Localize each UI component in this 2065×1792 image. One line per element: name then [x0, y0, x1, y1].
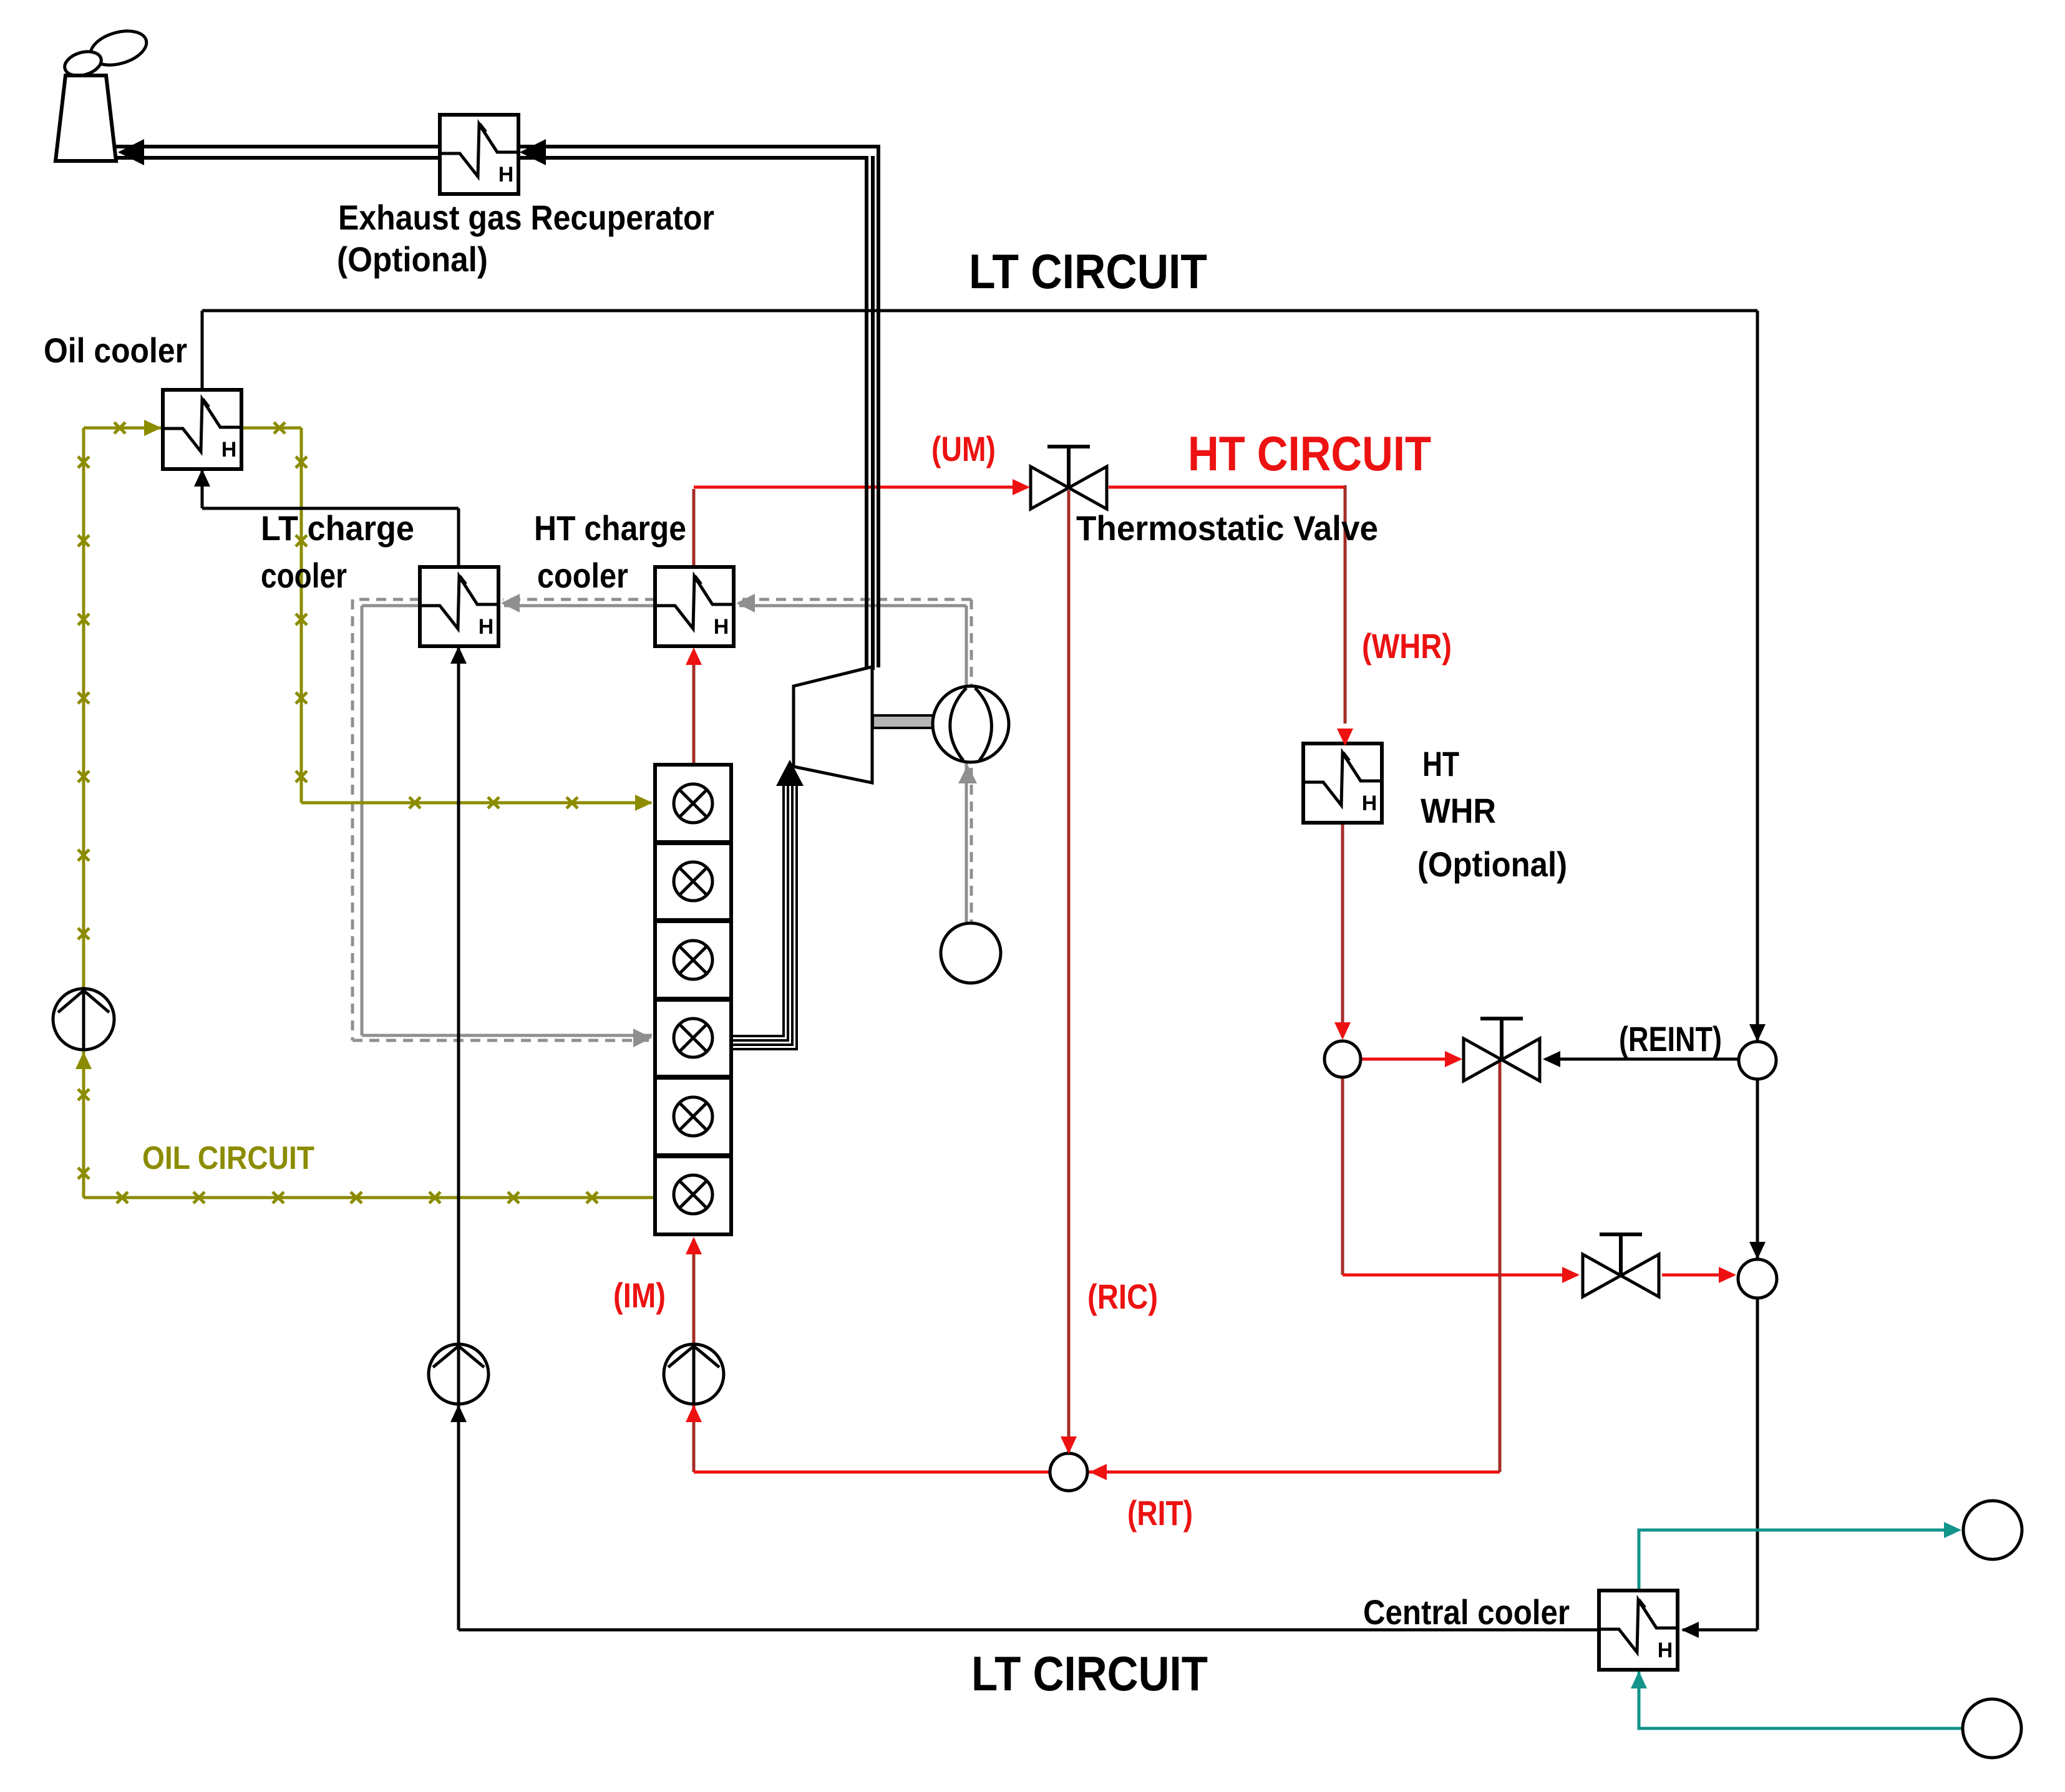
arrow red down into RIT node [1061, 1436, 1077, 1454]
wire oil circuit right vertical [300, 428, 303, 803]
wire gray dashed air line left of LT charge cooler [352, 598, 420, 601]
wire exhaust duct vertical line 2 [871, 156, 875, 670]
HT circuit pump [664, 1344, 724, 1404]
arrow gray air left into LT charge cooler [501, 594, 520, 613]
svg-text:(UM): (UM) [931, 429, 996, 468]
wire dark red (RIC) vertical from thermostatic valve to RIT node [1067, 490, 1071, 1453]
oil line x-marks [78, 422, 598, 1203]
svg-text:H: H [498, 163, 514, 186]
LT circuit pump [429, 1344, 488, 1404]
thermostatic valve [1031, 447, 1107, 509]
wire dark red vertical HT WHR exchanger to mixing node [1341, 821, 1344, 1037]
arrow REINT left into valve V2 [1543, 1051, 1560, 1067]
node B (bypass junction) [1738, 1259, 1777, 1298]
wire LT right border node A to node B [1756, 1079, 1759, 1260]
heat exchanger: Central cooler [1599, 1591, 1678, 1670]
wire gray dashed air line into engine intake [352, 1039, 652, 1042]
wire gray solid air line into engine intake [362, 1034, 652, 1037]
wire oil supply into engine cylinder 1 [301, 802, 651, 805]
arrow red right into valve V2 [1445, 1051, 1462, 1067]
wire engine exhaust manifold line 2 [731, 781, 788, 1040]
wire gray solid air line upper run (fan to HT charge cooler) [739, 604, 966, 608]
heat exchanger: HT WHR (Optional) [1303, 743, 1382, 823]
valve V3 (bypass valve) [1583, 1234, 1659, 1297]
svg-text:Central cooler: Central cooler [1363, 1592, 1570, 1632]
wire red bypass horizontal to valve V3 [1343, 1274, 1577, 1277]
arrow gray air right into engine cylinder 4 [633, 1029, 652, 1047]
svg-text:Exhaust gas Recuperator: Exhaust gas Recuperator [338, 198, 714, 237]
arrow teal right into outlet circle [1944, 1522, 1961, 1538]
node teal inlet circle [1963, 1699, 2021, 1758]
arrow red up into engine bottom [686, 1237, 702, 1254]
heat exchanger: HT charge cooler [655, 567, 734, 646]
wire LT circuit bottom border [459, 1629, 1599, 1632]
wire exhaust duct chimney to recuperator lower line [114, 156, 440, 160]
wire LT line down into LT charge cooler top [457, 508, 460, 568]
arrow exhaust into chimney [118, 139, 144, 165]
cylinder 6 symbol [674, 1175, 712, 1214]
arrow red up into HT pump [686, 1405, 702, 1422]
svg-text:H: H [1362, 792, 1377, 815]
wire LT line oil cooler bottom to corner [201, 468, 204, 508]
engine block (6 cylinders) [655, 765, 731, 1234]
arrow exhaust into recuperator [520, 139, 546, 165]
wire red line valve V3 to node B [1662, 1274, 1734, 1277]
svg-text:LT CIRCUIT: LT CIRCUIT [969, 244, 1207, 299]
node RIT junction [1050, 1453, 1087, 1491]
svg-text:(Optional): (Optional) [337, 240, 488, 279]
cylinder 3 symbol [674, 941, 712, 979]
svg-text:HT: HT [1422, 744, 1459, 783]
arrow gray air left into HT charge cooler [736, 594, 755, 613]
arrow LT flow up into LT pump [450, 1405, 467, 1422]
svg-text:cooler: cooler [537, 556, 628, 595]
wire dark red riser from HT charge cooler top [692, 489, 696, 568]
arrow oil into oil cooler [144, 420, 162, 436]
arrow oil into engine cylinder 1 [635, 795, 653, 811]
arrow red right into valve V3 [1562, 1267, 1580, 1283]
arrow red left into RIT node [1089, 1464, 1107, 1480]
wire engine exhaust manifold line 4 [731, 781, 797, 1049]
arrow LT flow up into oil cooler [194, 469, 210, 487]
arrow oil up into oil pump [75, 1052, 92, 1069]
svg-text:H: H [479, 615, 494, 639]
wire exhaust duct vertical line 3 [877, 148, 880, 667]
valve V2 (WHR/REINT mixing valve) [1464, 1019, 1540, 1081]
wire dark red line HT charge cooler inlet from engine top [692, 651, 696, 765]
svg-text:(Optional): (Optional) [1417, 845, 1567, 884]
wire oil circuit left vertical [82, 428, 85, 1198]
wire exhaust duct recuperator to corner upper line [517, 145, 880, 148]
arrow red down into WHR node [1334, 1022, 1351, 1040]
wire red (RIT) horizontal from HT pump corner to RIT node [694, 1471, 1049, 1474]
svg-text:(RIC): (RIC) [1087, 1277, 1158, 1316]
wire gray dashed air line upper run (fan to HT charge cooler) [738, 598, 971, 601]
node WHR mixing junction [1324, 1041, 1361, 1077]
wire REINT line from node A to valve V2 [1545, 1058, 1738, 1061]
ambient air intake circle [941, 923, 1001, 983]
svg-text:Thermostatic Valve: Thermostatic Valve [1076, 508, 1378, 548]
svg-text:LT CIRCUIT: LT CIRCUIT [971, 1646, 1208, 1701]
wire LT right border node B to bottom corner [1756, 1298, 1759, 1630]
wire LT circuit left vertical into oil cooler [201, 311, 204, 393]
svg-text:Oil cooler: Oil cooler [44, 331, 187, 370]
svg-text:OIL CIRCUIT: OIL CIRCUIT [142, 1140, 314, 1176]
wire exhaust duct vertical line 1 [865, 158, 868, 675]
wire exhaust duct recuperator to corner lower line [517, 156, 868, 160]
wire LT circuit right border [1756, 311, 1759, 1043]
svg-text:H: H [221, 438, 237, 462]
cylinder 1 symbol [674, 784, 712, 823]
svg-text:HT charge: HT charge [534, 508, 686, 548]
heat exchanger: Oil cooler [163, 390, 241, 469]
turbocharger shaft [873, 715, 935, 728]
wire red line thermostatic valve to WHR corner [1109, 486, 1345, 489]
wire teal central cooler bottom inlet [1639, 1670, 1963, 1728]
wire LT line LT charge cooler bottom through pump to bottom corner [457, 645, 460, 1630]
arrow left into central cooler [1681, 1622, 1699, 1638]
svg-text:HT CIRCUIT: HT CIRCUIT [1188, 426, 1431, 481]
wire LT line into central cooler right side [1683, 1629, 1757, 1632]
arrow down into node A [1749, 1024, 1766, 1042]
wire gray solid air line left of LT charge cooler [362, 604, 420, 608]
wire LT line horizontal to LT charge cooler [202, 507, 459, 510]
wire dark red drop from valve V2 to RIT line [1499, 1060, 1502, 1472]
wire dark red (IM) vertical engine bottom through HT pump [692, 1239, 696, 1472]
cylinder 2 symbol [674, 862, 712, 901]
heat exchanger: LT charge cooler [420, 567, 498, 646]
wire dark red line WHR node down to bypass corner [1341, 1077, 1344, 1275]
wire gray solid riser at compressor fan [965, 606, 968, 923]
oil pump [53, 989, 114, 1050]
wire oil supply horizontal through oil cooler [84, 427, 301, 430]
arrow red down into HT WHR exchanger [1337, 729, 1353, 746]
svg-text:H: H [1658, 1639, 1673, 1662]
chimney smoke cloud [62, 25, 150, 79]
arrow red up into HT charge cooler [686, 647, 702, 665]
arrow teal up into central cooler [1631, 1671, 1647, 1688]
svg-text:WHR: WHR [1421, 791, 1496, 830]
arrow LT flow up into LT charge cooler [450, 646, 467, 664]
wire gray solid air line (HT to LT charge cooler) [504, 604, 655, 608]
wire oil circuit bottom return to engine [84, 1196, 655, 1199]
wire dark red (WHR) vertical down to HT WHR exchanger [1344, 485, 1347, 724]
wire engine exhaust manifold line 1 [731, 781, 784, 1036]
svg-text:H: H [714, 615, 729, 639]
wire engine exhaust manifold line 3 [731, 781, 792, 1045]
wire red line WHR node to valve V2 [1361, 1058, 1460, 1061]
arrow down into node B [1749, 1242, 1766, 1259]
heat exchanger: Exhaust gas Recuperator [440, 115, 518, 194]
svg-text:(RIT): (RIT) [1127, 1493, 1193, 1533]
svg-text:LT charge: LT charge [261, 508, 414, 548]
arrow engine exhaust up into turbine [776, 760, 804, 786]
arrow red right into node B [1719, 1267, 1736, 1283]
arrow red into thermostatic valve [1013, 479, 1030, 495]
cylinder 5 symbol [674, 1097, 712, 1136]
wire gray dashed riser at compressor fan [970, 599, 973, 923]
wire red (UM) horizontal to thermostatic valve [694, 486, 1028, 489]
svg-text:(REINT): (REINT) [1619, 1019, 1722, 1058]
svg-text:cooler: cooler [261, 556, 347, 595]
arrow gray air up into compressor fan [958, 765, 977, 783]
wire gray dashed air line (HT to LT charge cooler) [503, 598, 655, 601]
wire gray dashed air downcomer [351, 599, 354, 1040]
cylinder 4 symbol [674, 1019, 712, 1057]
compressor fan [933, 686, 1009, 762]
node teal outlet circle [1963, 1501, 2022, 1559]
svg-text:(IM): (IM) [613, 1276, 666, 1315]
svg-text:(WHR): (WHR) [1362, 626, 1452, 666]
wire gray solid air downcomer [361, 606, 364, 1035]
node A (REINT junction) [1739, 1042, 1776, 1079]
wire teal central cooler top outlet [1639, 1530, 1958, 1591]
turbocharger turbine [794, 667, 872, 783]
wire LT circuit top border [202, 309, 1757, 312]
chimney [56, 75, 116, 161]
wire red horizontal RIT node to valve V2 drop [1088, 1471, 1500, 1474]
wire exhaust duct chimney to recuperator upper line [114, 145, 440, 148]
